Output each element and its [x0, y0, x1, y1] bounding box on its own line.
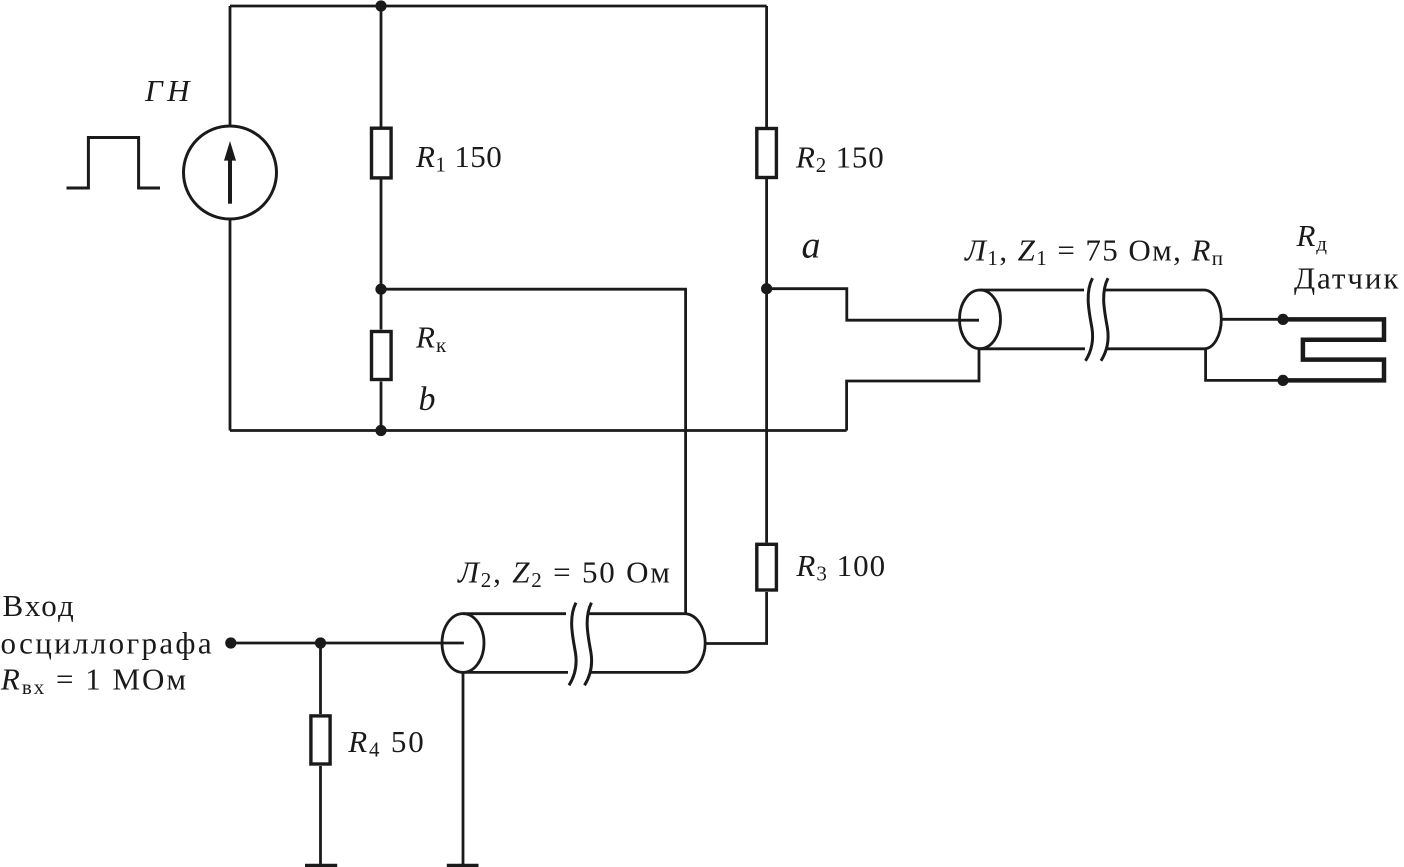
svg-text:Rд: Rд	[1296, 218, 1328, 256]
svg-text:Датчик: Датчик	[1294, 261, 1400, 296]
svg-text:R3 100: R3 100	[795, 548, 886, 586]
svg-text:R4 50: R4 50	[347, 724, 425, 762]
svg-text:Rвх = 1 МОм: Rвх = 1 МОм	[0, 661, 188, 699]
svg-text:Л2, Z2 = 50 Ом: Л2, Z2 = 50 Ом	[457, 555, 672, 593]
svg-text:b: b	[419, 381, 436, 418]
svg-text:R1 150: R1 150	[415, 139, 502, 177]
svg-text:осциллографа: осциллографа	[1, 626, 214, 661]
svg-text:Л1, Z1 = 75 Ом, Rп: Л1, Z1 = 75 Ом, Rп	[964, 233, 1224, 271]
svg-text:R2 150: R2 150	[795, 140, 885, 178]
svg-text:Rк: Rк	[415, 320, 447, 358]
svg-text:ГН: ГН	[144, 73, 194, 108]
svg-text:a: a	[802, 225, 821, 267]
svg-text:Вход: Вход	[3, 588, 76, 623]
